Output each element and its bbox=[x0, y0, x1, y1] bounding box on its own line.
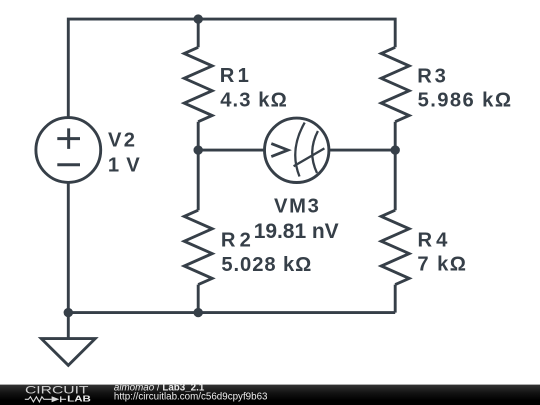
svg-text:19.81 nV: 19.81 nV bbox=[254, 220, 339, 243]
svg-text:LAB: LAB bbox=[67, 395, 91, 404]
svg-text:1 V: 1 V bbox=[108, 155, 140, 177]
svg-text:5.986 kΩ: 5.986 kΩ bbox=[418, 90, 511, 112]
svg-text:http://circuitlab.com/c56d9cpy: http://circuitlab.com/c56d9cpyf9b63 bbox=[114, 392, 268, 403]
svg-text:VM3: VM3 bbox=[274, 196, 319, 218]
svg-text:R3: R3 bbox=[417, 66, 446, 88]
svg-text:5.028 kΩ: 5.028 kΩ bbox=[221, 254, 311, 276]
svg-text:4.3 kΩ: 4.3 kΩ bbox=[220, 89, 287, 111]
svg-text:7 kΩ: 7 kΩ bbox=[417, 254, 466, 276]
svg-text:R1: R1 bbox=[220, 65, 249, 87]
